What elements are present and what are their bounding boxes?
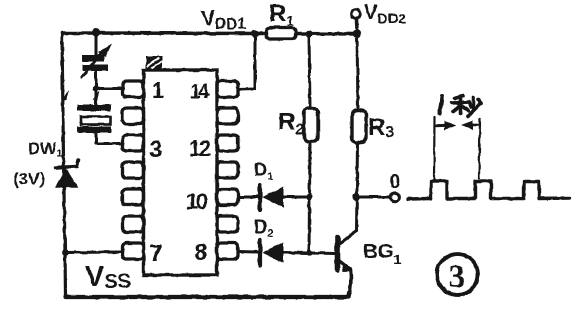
terminal VDD2 [352, 10, 361, 19]
svg-text:8: 8 [195, 239, 208, 265]
zener diode DW1 [56, 160, 79, 188]
dimension line left (1s marker) [433, 117, 436, 180]
tick mark on crystal branch [93, 90, 100, 100]
terminal output O [391, 193, 400, 202]
svg-text:7: 7 [150, 240, 163, 266]
node junction dot D1/R2 [306, 194, 312, 200]
node junction dot D2/base [307, 250, 312, 255]
svg-text:3: 3 [150, 136, 163, 162]
wire R3 bottom to collector [357, 143, 358, 232]
pin boxes right side [217, 81, 238, 259]
wire bottom VSS rail [66, 295, 349, 299]
svg-text:VDD1: VDD1 [201, 7, 246, 33]
wire top rail right of R1 [296, 32, 357, 36]
wire left edge vertical [62, 33, 66, 297]
dimension arrow right [461, 121, 480, 130]
transistor BG1 [338, 231, 357, 296]
svg-text:0: 0 [390, 172, 401, 193]
label 秒 (second) drawn strokes [452, 96, 481, 117]
wire pin 8 to D2 [238, 250, 259, 254]
node junction dot VDD2 [353, 30, 361, 38]
diode D1 [260, 185, 309, 210]
node junction dot R2 branch [305, 30, 313, 38]
svg-text:D1: D1 [254, 160, 273, 183]
svg-text:R2: R2 [278, 109, 304, 139]
resistor R3 [352, 110, 366, 143]
node junction dot pin7/left rail [62, 249, 69, 256]
waveform output pulses [408, 181, 569, 199]
wire R2 bottom to base line [309, 142, 310, 254]
svg-text:14: 14 [190, 81, 210, 103]
wire top VDD1 rail left segment [62, 31, 266, 35]
svg-text:12: 12 [189, 136, 211, 161]
pin boxes left side [123, 81, 144, 259]
svg-text:10: 10 [186, 189, 208, 214]
svg-text:DW1: DW1 [28, 139, 62, 160]
resistor R1 [266, 28, 296, 40]
node junction dot output [353, 193, 361, 201]
svg-text:VSS: VSS [85, 261, 131, 293]
pin 1 marker (hatched square) [146, 56, 162, 69]
crystal Y1 [78, 105, 112, 144]
svg-text:3: 3 [449, 259, 466, 295]
op-amp U1 IC body [144, 70, 218, 275]
wire node to pin 1 [95, 87, 123, 90]
svg-text:VDD2: VDD2 [364, 2, 406, 28]
svg-text:(3V): (3V) [13, 170, 45, 189]
dimension arrow left [435, 121, 457, 130]
wire to output terminal [357, 196, 391, 199]
figure number circle 3 [437, 254, 478, 295]
svg-text:R3: R3 [368, 114, 394, 141]
wire pin 7 to VSS corner [65, 251, 123, 255]
wire pin 10 to D1 [238, 196, 259, 199]
svg-text:BG1: BG1 [363, 240, 402, 267]
label 1 (of 1秒) [440, 97, 443, 115]
wire crystal to pin 3 [96, 142, 123, 145]
resistor R2 [304, 108, 318, 142]
wire node down to crystal [95, 89, 98, 105]
svg-text:1: 1 [152, 78, 164, 103]
svg-text:D2: D2 [254, 217, 273, 240]
capacitor C1 (trimmer) [82, 33, 112, 90]
tick mark on left vertical [62, 90, 69, 101]
diode D2 [260, 240, 336, 265]
wire R2 top [309, 34, 310, 108]
node junction dot pin14 branch [251, 30, 259, 38]
dimension line right (1s marker) [479, 119, 480, 178]
wire pin 14 to rail [238, 34, 255, 89]
node dot varcap/pin1 [93, 86, 98, 91]
node junction dot varcap branch [92, 29, 100, 37]
wire R3 top [357, 34, 358, 110]
svg-text:R1: R1 [269, 1, 294, 29]
